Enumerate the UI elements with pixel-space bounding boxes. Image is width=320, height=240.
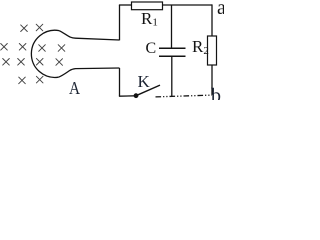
wire: left edge upper vertical [119, 5, 121, 40]
node: capacitor branch junction, wire down to C [171, 5, 173, 48]
wire: right edge lower [211, 65, 213, 95]
label R2 [192, 38, 209, 57]
resistor R1 (box) [132, 2, 163, 10]
wire: R1 to top-right corner [163, 4, 213, 6]
wire: bottom lead from loop to circuit [58, 68, 119, 77]
wire: top horizontal to R1 [119, 4, 132, 6]
switch K pivot dot [134, 93, 139, 98]
terminal a label [217, 0, 226, 18]
capacitor C plates [159, 47, 186, 49]
terminal b label [211, 86, 221, 106]
label K [138, 73, 150, 90]
wire: right edge upper (corner a side) [211, 4, 213, 36]
coil loop A (open circle) [31, 30, 59, 77]
wire: top lead from loop to circuit [59, 31, 119, 40]
label A (loop) [69, 79, 80, 97]
label C [146, 41, 157, 57]
wire: dashed bottom wire from switch to b [156, 95, 213, 97]
resistor R2 (box) [208, 36, 217, 65]
switch K blade (open) [136, 85, 160, 96]
wire: bottom horizontal to switch [119, 95, 136, 97]
magnetic field region (x marks, field into page) [1, 24, 65, 83]
label R1 [141, 10, 158, 29]
wire: below capacitor down to bottom wire [171, 56, 173, 96]
wire: bottom-left vertical [119, 68, 121, 96]
